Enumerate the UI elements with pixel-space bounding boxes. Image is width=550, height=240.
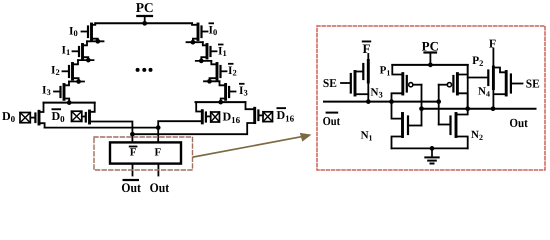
label Fbar in box <box>129 146 138 159</box>
wire NMOS source line <box>392 147 468 149</box>
svg-text:Out: Out <box>323 114 341 128</box>
svg-text:I3: I3 <box>239 85 248 98</box>
node PC junction dot <box>142 21 147 26</box>
wire PC stem right <box>429 53 431 65</box>
PC label top <box>136 0 154 15</box>
wire up-jog to D16 source <box>158 121 201 127</box>
svg-text:SE: SE <box>526 77 540 91</box>
label Ibar3 <box>239 83 248 97</box>
port D16 input box <box>211 112 220 122</box>
label SE right <box>526 77 540 91</box>
middle ellipsis dots <box>136 68 153 72</box>
node dot PC <box>428 63 433 68</box>
svg-text:F: F <box>363 41 371 56</box>
wire F stem <box>492 49 494 68</box>
node dot r2 <box>199 59 204 64</box>
label Ibar0 <box>209 22 218 36</box>
svg-text:I2: I2 <box>228 65 237 78</box>
transistor Ibar0 <box>192 23 208 42</box>
node dot2 <box>86 58 91 63</box>
label I2 <box>51 65 60 78</box>
svg-text:Out: Out <box>509 116 528 130</box>
node dot1 <box>95 39 100 44</box>
svg-text:PC: PC <box>136 0 154 15</box>
wire F input stem <box>157 128 159 143</box>
node dot Ibar3 source <box>218 100 223 105</box>
wire Fbar stem <box>367 54 369 61</box>
wire PC rail right box <box>392 64 467 66</box>
node dot I3 source <box>67 100 72 105</box>
wire Outbar stem <box>132 164 134 176</box>
transistor N1 <box>392 102 422 149</box>
wire node2 <box>78 59 94 61</box>
transistor N2 <box>439 109 468 149</box>
port D0 input box <box>20 113 30 123</box>
big dashed box <box>317 26 545 170</box>
node dot P2-N4 <box>491 106 496 111</box>
node dot N1 drain on N3 <box>389 99 394 104</box>
node dot N4 mid <box>465 106 470 111</box>
ground <box>425 148 438 163</box>
wire node r1 <box>187 41 203 43</box>
svg-text:F: F <box>155 147 162 159</box>
transistor P2 <box>468 67 494 89</box>
node dot ground <box>430 146 435 151</box>
label Outbar right box <box>323 112 341 128</box>
node dot Fbar <box>130 132 135 137</box>
label I0 <box>69 26 78 39</box>
wire PMOS-L gate to N4 and N1 gate <box>421 85 423 126</box>
transistor PMOS right (cross-coupled) <box>439 65 468 109</box>
node dot F <box>156 125 161 130</box>
transistor I0 <box>82 23 98 41</box>
transistor D0 pass <box>30 103 44 128</box>
transistor D16 pass <box>196 102 211 123</box>
svg-text:Out: Out <box>150 180 170 195</box>
label Out right box <box>509 116 528 130</box>
arrow to right box <box>194 133 312 157</box>
node dot r1 <box>191 40 196 45</box>
svg-text:SE: SE <box>323 76 337 90</box>
node dot r3 <box>207 79 212 84</box>
node dot N3 right end <box>436 99 441 104</box>
small dashed box around F latch <box>94 137 193 170</box>
label SE left <box>323 76 337 90</box>
svg-text:I0: I0 <box>69 26 78 39</box>
label Ibar2 <box>228 63 237 77</box>
label I1 <box>62 45 71 58</box>
svg-text:I0: I0 <box>209 24 218 37</box>
wire P2 drain down <box>492 89 494 109</box>
wire cross to D16bar source <box>132 123 253 134</box>
label Out bottom <box>150 180 170 195</box>
wire D0-pair rail <box>44 102 95 104</box>
transistor Ibar2 <box>210 61 227 81</box>
svg-text:I1: I1 <box>218 46 227 59</box>
wire Out stem <box>157 164 159 176</box>
label Ibar1 <box>218 44 227 58</box>
label N2 <box>471 129 483 142</box>
wire node r3 <box>204 80 220 82</box>
wire A from D0bar source to Fbar input <box>90 122 133 135</box>
label Outbar bottom <box>121 179 141 195</box>
label F in box <box>155 147 162 159</box>
svg-text:Out: Out <box>121 180 141 195</box>
transistor I1 <box>73 41 89 60</box>
label N4 <box>478 86 490 99</box>
svg-text:I1: I1 <box>62 45 71 58</box>
port D16bar input box <box>263 112 273 122</box>
label Fbar right box <box>362 41 371 57</box>
svg-text:I3: I3 <box>42 85 51 98</box>
transistor I2 <box>63 60 79 81</box>
wire node1 <box>87 40 104 42</box>
wire Fbar input stem <box>131 134 133 142</box>
wire B from D0 source to F node <box>45 127 159 129</box>
transistor PMOS left (cross-coupled) <box>392 65 422 102</box>
transistor SE left <box>341 72 368 96</box>
label D16 <box>223 110 241 125</box>
PC terminal bar right <box>425 51 437 53</box>
F latch box <box>110 142 181 163</box>
wire P1 drain down <box>367 82 369 102</box>
transistor Ibar1 <box>201 42 216 61</box>
port D0bar input box <box>72 111 82 121</box>
label P1 <box>380 65 391 78</box>
svg-text:F: F <box>130 147 137 159</box>
transistor D0bar pass <box>82 103 95 123</box>
label N1 <box>361 130 373 143</box>
transistor Ibar3 <box>220 81 236 102</box>
node dot P1-N3 <box>366 99 371 104</box>
transistor I3 <box>54 82 69 103</box>
transistor D16bar pass <box>246 102 264 123</box>
PC terminal bar <box>137 15 152 17</box>
transistor SE right <box>493 68 522 96</box>
wire N4 line <box>422 108 536 110</box>
label F right box <box>489 37 496 51</box>
wire D16-pair rail <box>196 101 246 103</box>
wire PC rail end down to N4 <box>467 65 469 109</box>
transistor P1 <box>355 61 368 83</box>
label P2 <box>472 55 483 68</box>
label N3 <box>371 87 383 100</box>
node dot3 <box>76 79 81 84</box>
wire N3 line <box>324 101 439 103</box>
wire PC stem <box>144 16 146 23</box>
node dot N4 left end <box>419 106 424 111</box>
svg-text:I2: I2 <box>51 65 60 78</box>
label D0bar <box>52 108 66 124</box>
label D16bar <box>277 107 295 123</box>
label I3 <box>42 85 51 98</box>
label D0 <box>2 109 16 124</box>
wire node r2 <box>196 60 212 62</box>
wire top rail <box>95 22 192 24</box>
wire PMOS-R gate to N3 and N2 gate <box>438 85 440 125</box>
wire node3 <box>69 81 84 83</box>
label PC right box <box>422 39 439 54</box>
